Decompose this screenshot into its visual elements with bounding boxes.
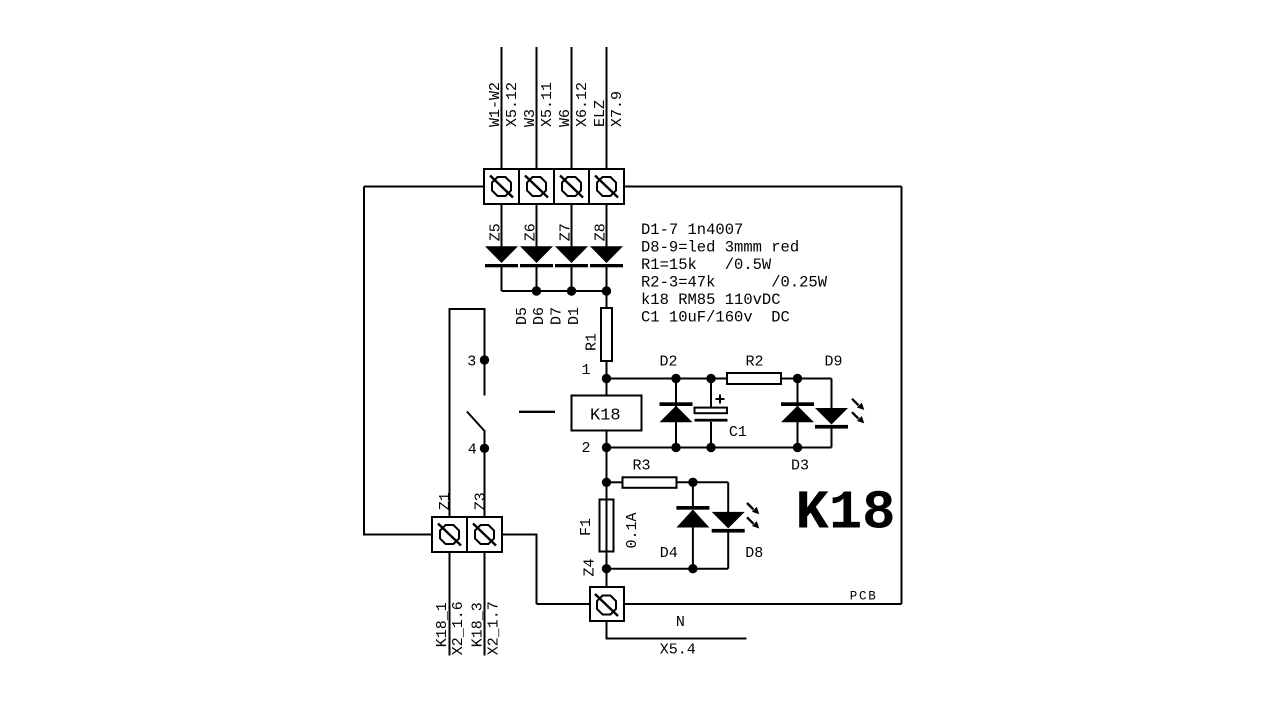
relay coil K18: [572, 379, 642, 448]
resistor R2: [727, 373, 832, 384]
svg-text:X5.4: X5.4: [660, 641, 696, 658]
junction node1 at D2: [671, 374, 680, 383]
svg-text:2: 2: [582, 440, 591, 457]
svg-text:X6.12: X6.12: [574, 82, 591, 127]
svg-text:N: N: [676, 614, 685, 631]
wire PCB boundary riser to Z3: [502, 535, 537, 605]
svg-text:D3: D3: [791, 458, 809, 475]
terminal Z8: [589, 169, 624, 204]
svg-text:D9: D9: [825, 353, 843, 370]
svg-text:W1-W2: W1-W2: [487, 82, 504, 127]
svg-text:D6: D6: [531, 307, 548, 325]
resistor R1: [601, 291, 612, 379]
wire PCB boundary left edge: [364, 187, 432, 535]
svg-text:k18 RM85 110vDC: k18 RM85 110vDC: [641, 291, 781, 309]
svg-text:D1-7 1n4007: D1-7 1n4007: [641, 221, 743, 239]
svg-text:ELZ: ELZ: [592, 100, 609, 127]
svg-text:R2-3=47k /0.25W: R2-3=47k /0.25W: [641, 274, 828, 292]
svg-text:K18: K18: [590, 407, 621, 426]
junction node2 at C1: [706, 443, 715, 452]
junction node2 at D2: [671, 443, 680, 452]
svg-text:D7: D7: [549, 307, 566, 325]
svg-text:C1: C1: [729, 424, 747, 441]
svg-text:R3: R3: [633, 458, 651, 475]
switch blade K18 contact: [467, 412, 485, 432]
contact 3: [480, 355, 489, 364]
svg-text:C1 10uF/160v DC: C1 10uF/160v DC: [641, 309, 790, 327]
svg-text:X2_1.6: X2_1.6: [450, 601, 467, 655]
svg-text:X7.9: X7.9: [609, 91, 626, 127]
wire below Z3: [484, 552, 486, 656]
wire node2 down to R3/F1 junction: [606, 448, 608, 500]
svg-text:W3: W3: [522, 109, 539, 127]
mechanical link dash to switch: [519, 411, 555, 413]
junction on bus at D6: [532, 286, 541, 295]
terminal Z4: [590, 569, 624, 621]
junction node1 at R2/D3/D9: [793, 374, 802, 383]
svg-text:F1: F1: [578, 518, 595, 536]
terminal Z1: [432, 517, 467, 552]
junction on bus at D1: [602, 286, 611, 295]
svg-text:K18_3: K18_3: [470, 602, 487, 647]
diode D1: [590, 204, 623, 291]
svg-text:Z1: Z1: [437, 492, 454, 510]
wire PCB boundary bottom-middle segment: [537, 603, 591, 605]
node 1 rail (wire): [607, 378, 728, 380]
svg-text:X5.12: X5.12: [504, 82, 521, 127]
svg-text:0.1A: 0.1A: [624, 512, 641, 548]
diode D7: [555, 204, 588, 291]
wire below Z1: [449, 552, 451, 656]
svg-text:D8-9=led 3mmm red: D8-9=led 3mmm red: [641, 239, 799, 257]
junction on bus at D7: [567, 286, 576, 295]
diode D4: [676, 482, 709, 568]
LED D8: [712, 482, 760, 568]
wire contact 4 to Z3: [484, 448, 486, 517]
junction node2 at D3: [793, 443, 802, 452]
wire input 1 (to terminal Z5): [501, 47, 503, 169]
diode D3: [781, 379, 814, 448]
svg-text:K18_1: K18_1: [434, 602, 451, 647]
node 2 rail (wire): [607, 447, 832, 449]
svg-text:R1=15k /0.5W: R1=15k /0.5W: [641, 256, 772, 274]
svg-text:R1: R1: [584, 333, 601, 351]
junction node2 at K18: [602, 443, 611, 452]
wire switch branch from Z1 up and over: [450, 309, 485, 517]
junction bottom rail at D4: [688, 564, 697, 573]
capacitor C1 (polarized): [695, 379, 728, 448]
terminal Z5: [484, 169, 519, 204]
wire input 4 (to terminal Z8): [606, 47, 608, 169]
LED D9: [815, 379, 864, 448]
wire input 3 (to terminal Z7): [571, 47, 573, 169]
svg-text:3: 3: [467, 353, 476, 370]
resistor R3: [607, 477, 729, 488]
svg-text:1: 1: [582, 362, 591, 379]
wire blade to contact 4: [484, 431, 486, 448]
wire bottom rail D4/D8: [607, 568, 729, 570]
svg-text:4: 4: [468, 441, 477, 458]
svg-text:PCB: PCB: [850, 590, 878, 604]
wire PCB boundary bottom-right segment: [624, 603, 902, 605]
wire PCB boundary top-right segment: [624, 186, 902, 188]
svg-text:R2: R2: [746, 353, 764, 370]
terminal Z3: [467, 517, 502, 552]
svg-text:D4: D4: [660, 545, 678, 562]
wire input 2 (to terminal Z6): [536, 47, 538, 169]
wire PCB boundary top-left segment: [364, 186, 484, 188]
diode D5: [485, 204, 518, 291]
terminal Z6: [519, 169, 554, 204]
svg-text:D8: D8: [745, 545, 763, 562]
junction at R3/F1: [602, 478, 611, 487]
svg-text:Z4: Z4: [582, 558, 599, 576]
junction node1 at C1: [706, 374, 715, 383]
diode D2: [660, 379, 693, 448]
wire PCB boundary right edge: [901, 187, 903, 605]
junction at R3/D4: [688, 478, 697, 487]
svg-text:K18: K18: [796, 482, 896, 545]
terminal Z7: [554, 169, 589, 204]
svg-text:D5: D5: [514, 307, 531, 325]
contact 4: [480, 444, 489, 453]
fuse F1: [600, 500, 614, 569]
junction bottom rail at F1/Z4: [602, 564, 611, 573]
svg-text:D1: D1: [566, 307, 583, 325]
diode D6: [520, 204, 553, 291]
wire rectifier output bus: [502, 290, 607, 292]
svg-text:D2: D2: [660, 353, 678, 370]
svg-text:Z3: Z3: [472, 492, 489, 510]
junction node1 at K18/R1: [602, 374, 611, 383]
svg-text:W6: W6: [557, 109, 574, 127]
svg-text:X5.11: X5.11: [539, 82, 556, 127]
svg-text:X2_1.7: X2_1.7: [486, 601, 503, 655]
wire neutral output N: [607, 621, 747, 639]
